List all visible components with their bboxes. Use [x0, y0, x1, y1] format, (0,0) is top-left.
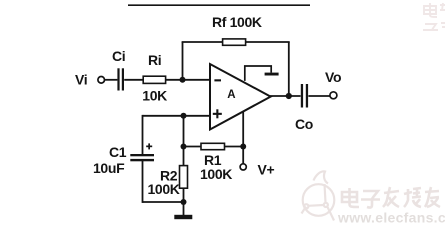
svg-text:V+: V+	[258, 162, 275, 178]
svg-text:C1: C1	[109, 144, 127, 160]
svg-text:10K: 10K	[142, 88, 167, 104]
svg-text:Vo: Vo	[325, 69, 341, 85]
svg-text:www.elecfans.com: www.elecfans.com	[337, 210, 445, 226]
svg-text:Rf 100K: Rf 100K	[212, 14, 262, 30]
svg-text:10uF: 10uF	[93, 160, 125, 176]
svg-text:Co: Co	[295, 116, 313, 132]
svg-text:100K: 100K	[200, 166, 232, 182]
svg-text:Ci: Ci	[112, 48, 125, 64]
svg-text:Ri: Ri	[148, 52, 161, 68]
svg-text:A: A	[227, 89, 235, 101]
svg-text:Vi: Vi	[75, 72, 87, 88]
svg-text:100K: 100K	[148, 181, 180, 197]
